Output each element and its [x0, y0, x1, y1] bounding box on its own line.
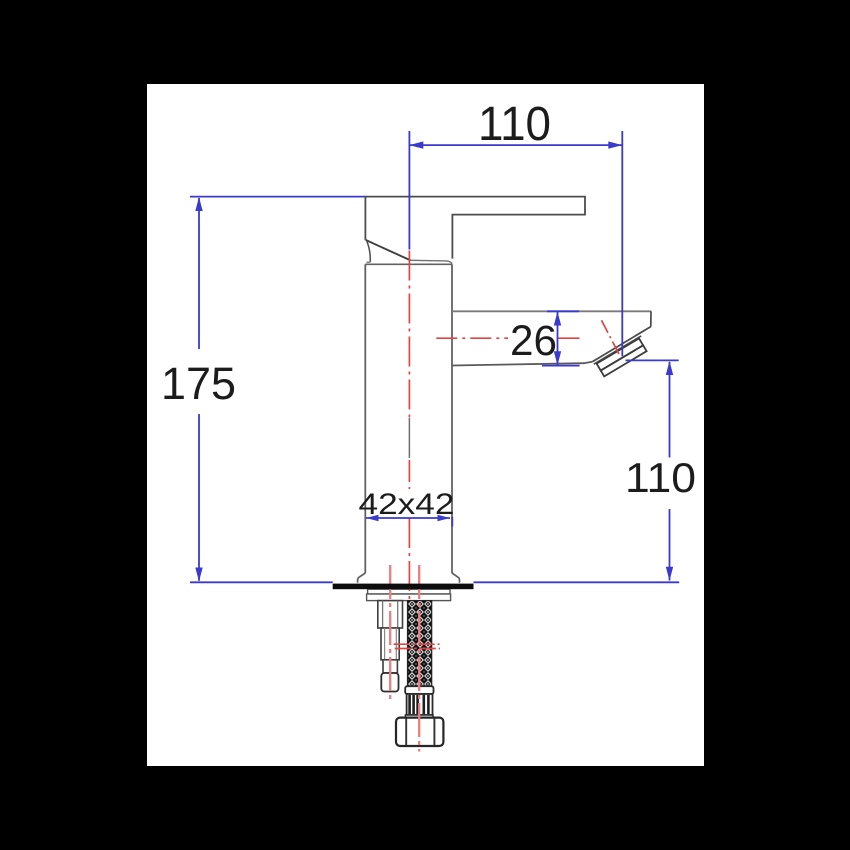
- arrow 42x42 right: [438, 515, 451, 522]
- stud thread lines 1: [383, 601, 398, 628]
- aerator housing: [597, 338, 644, 370]
- stud thread lines 2: [385, 628, 397, 660]
- dim 175: vertical dimension line: [198, 198, 200, 581]
- arrow 110 top right: [608, 141, 622, 148]
- stud end cylinder: [381, 673, 398, 692]
- dim 42x42: right tick: [451, 517, 453, 527]
- spout bottom edge: [452, 362, 593, 366]
- spout right bevel: [650, 311, 652, 326]
- main vertical centerline lower: [408, 518, 410, 600]
- arrow 26 up: [554, 312, 561, 326]
- crimp ribs: [410, 695, 429, 714]
- braided hose: [408, 601, 432, 687]
- handle left face edge: [367, 241, 371, 262]
- svg-text:26: 26: [510, 317, 557, 365]
- nut hex facets: [406, 719, 434, 746]
- handle lever outline: [365, 197, 585, 259]
- dim 110 right: top extension line: [626, 359, 679, 361]
- collar lens left tick: [366, 261, 370, 263]
- white drawing panel: [147, 84, 704, 766]
- dim 175: top extension line: [190, 196, 365, 198]
- base flare left: [358, 573, 366, 583]
- hose joint mark upper: [394, 643, 440, 645]
- hose ferrule band: [405, 686, 433, 694]
- threaded stud section 2: [381, 628, 399, 660]
- countertop black bar: [333, 584, 474, 590]
- locknut under washer: [367, 594, 451, 601]
- body left edge: [364, 264, 366, 573]
- dim 110 top: right extension line: [621, 131, 623, 356]
- body right edge: [451, 264, 453, 573]
- dim 26: vertical line: [557, 312, 559, 365]
- arrow 42x42 left: [366, 515, 379, 522]
- cartridge collar lens: [411, 260, 453, 263]
- handle bottom diagonal: [366, 240, 411, 260]
- aerator centerline: [602, 320, 621, 357]
- svg-text:42x42: 42x42: [359, 488, 455, 521]
- threaded stud section 1: [378, 601, 403, 628]
- spout tip face outer: [593, 327, 651, 362]
- arrow 110 right up: [666, 361, 673, 375]
- washer under countertop: [368, 589, 450, 594]
- hose end nut: [396, 718, 443, 746]
- stud centerline: [389, 565, 391, 703]
- dim 110 top: dimension line: [409, 144, 622, 146]
- arrow 26 down: [554, 351, 561, 365]
- main vertical centerline upper: [408, 251, 410, 418]
- svg-text:110: 110: [625, 454, 696, 501]
- aerator ring: [601, 345, 647, 376]
- base extension line right: [474, 581, 680, 583]
- body top edge: [365, 263, 452, 265]
- base flare right: [452, 573, 460, 583]
- spout tip face inner: [594, 336, 641, 364]
- spout top edge: [452, 310, 651, 312]
- dim 110 top: left extension line: [408, 131, 410, 250]
- hose joint mark lower: [395, 648, 440, 650]
- dim 26: top tick: [547, 310, 579, 312]
- dim 110 right: vertical dimension line: [669, 362, 671, 581]
- dim 26: bottom tick: [542, 365, 580, 367]
- crimp ribbed sleeve: [407, 694, 433, 715]
- stud section 3: [383, 660, 397, 673]
- spout horizontal centerline: [436, 337, 584, 339]
- centerline dark segment: [408, 418, 410, 459]
- svg-text:175: 175: [161, 358, 236, 409]
- arrow 110 right down: [666, 567, 673, 581]
- svg-text:110: 110: [478, 98, 551, 151]
- sleeve lower band: [405, 715, 433, 718]
- base extension line left: [190, 581, 333, 583]
- arrow 175 up: [195, 197, 202, 211]
- arrow 110 top left: [409, 141, 423, 148]
- main vertical centerline mid: [408, 460, 410, 489]
- hose centerline: [418, 565, 420, 752]
- dim 42x42: dimension line: [366, 517, 450, 519]
- arrow 175 down: [195, 568, 202, 582]
